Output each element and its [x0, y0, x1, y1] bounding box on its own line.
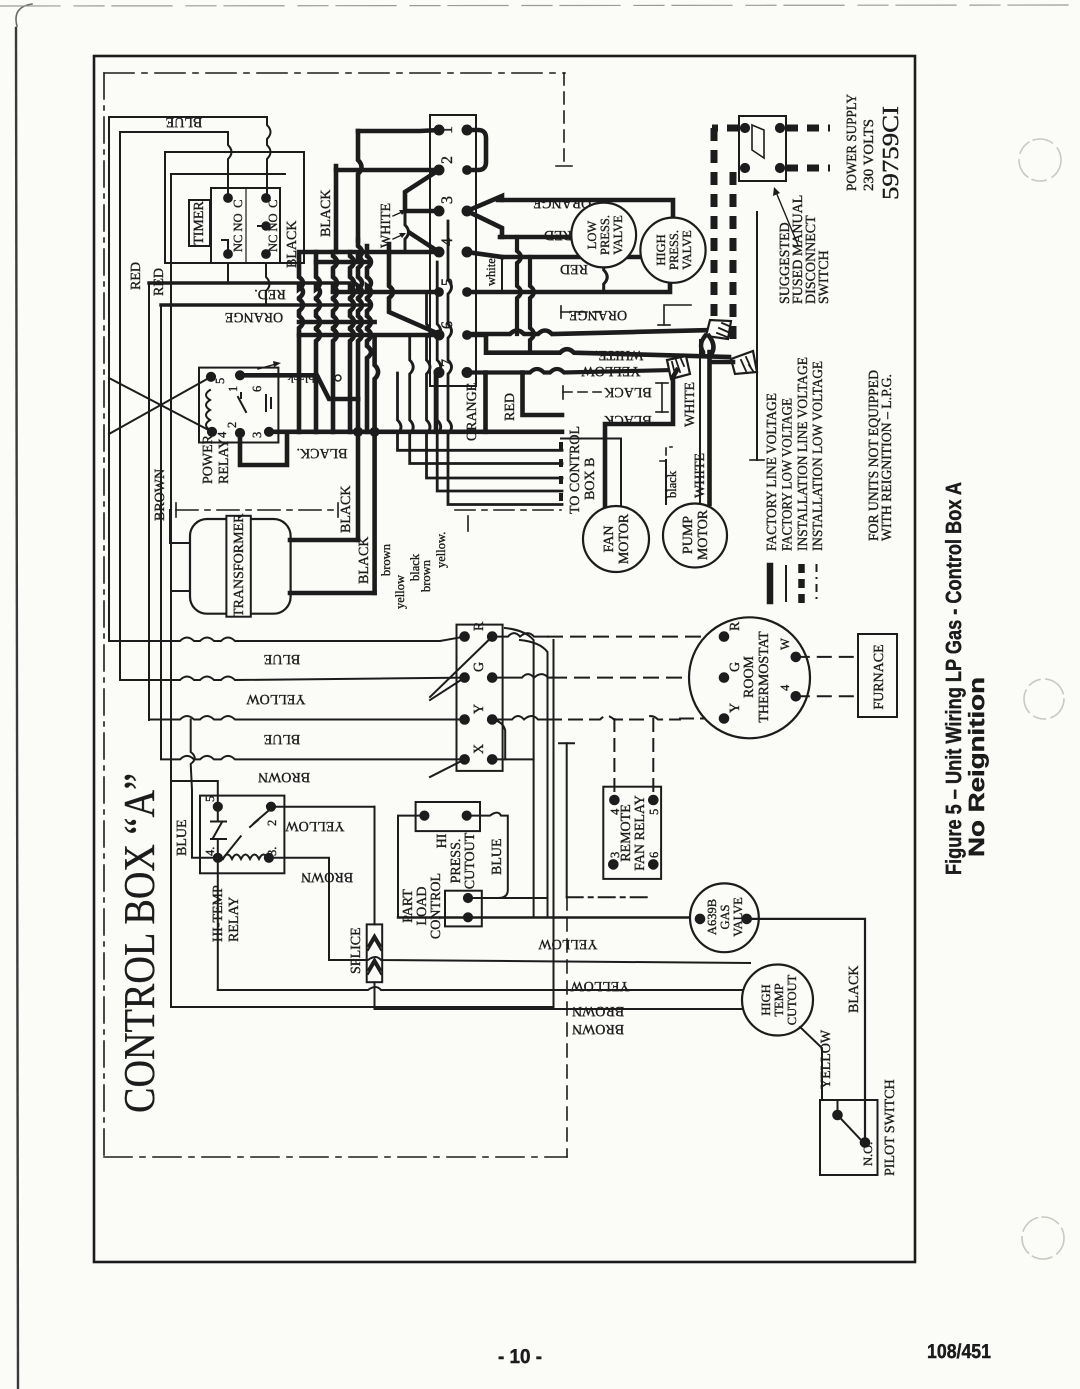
- svg-text:PRESS.: PRESS.: [598, 215, 612, 255]
- wire YELLOW to G row y=680: [120, 677, 465, 681]
- wire G dashed to thermostat: [492, 674, 724, 678]
- svg-text:THERMOSTAT: THERMOSTAT: [757, 631, 772, 723]
- power relay pin 6: [250, 386, 264, 392]
- wire RED y=237 to low valve: [500, 235, 572, 240]
- power supply dashed left: [712, 125, 739, 132]
- label YELLOW upside cutout: [570, 978, 630, 993]
- wire BROWN to X row y=759.4: [161, 756, 465, 760]
- svg-text:MOTOR: MOTOR: [696, 509, 711, 560]
- svg-text:2: 2: [265, 820, 279, 826]
- wire transformer bottom terminal: [290, 591, 375, 596]
- label BLUE vertical hi press: [490, 838, 505, 875]
- label POWER RELAY: [201, 434, 232, 484]
- label ORANGE vertical: [465, 383, 480, 441]
- fan motor circle: [583, 506, 649, 572]
- timer terminal dots: [224, 194, 271, 259]
- label black small 1: [408, 553, 422, 581]
- label YELLOW upside long: [581, 363, 641, 378]
- legend sample installation line voltage: [798, 564, 805, 603]
- svg-text:R: R: [472, 621, 487, 631]
- left vertical wire x=109: [108, 117, 110, 641]
- label YELLOW upside part load: [538, 936, 598, 951]
- hi-temp relay coil: [223, 855, 268, 860]
- wire thin to pump left: [665, 460, 667, 504]
- transformer left stub bottom: [173, 590, 190, 592]
- svg-text:6: 6: [647, 852, 661, 858]
- wire BLUE to hi-temp 4: [191, 720, 218, 858]
- dash-dot tick line y=510 right: [455, 510, 561, 531]
- wire blue drop to timer C with hops: [267, 117, 271, 198]
- hi-temp relay pin 4: [203, 847, 217, 856]
- white label arrow 2: [393, 233, 406, 239]
- label BLACK upside 2: [604, 412, 651, 427]
- svg-text:RELAY: RELAY: [227, 897, 242, 942]
- wire box-B vertical x=409.7: [410, 335, 562, 464]
- hi-temp relay blade 2: [221, 809, 271, 861]
- wire R dashed to thermostat: [492, 633, 724, 637]
- wire box-B vertical x=448: [448, 221, 562, 505]
- relay diagonal wire up: [109, 377, 211, 434]
- bundle vertical x=299: [299, 256, 303, 432]
- pump motor circle: [663, 504, 727, 568]
- label BLACK tall 2: [319, 190, 334, 237]
- svg-text:Figure 5 – Unit Wiring LP Gas: Figure 5 – Unit Wiring LP Gas - Control …: [941, 482, 966, 875]
- power supply dashed vertical x=733: [730, 172, 737, 346]
- remote fan relay pin 5: [647, 809, 661, 815]
- wire box-B vertical x=397.5: [398, 373, 563, 450]
- t-block jumper diagonal X: [430, 759, 465, 777]
- dash elbow near valves: [561, 306, 601, 318]
- label BLACK vertical pilot: [847, 966, 862, 1013]
- long vertical v1 x=533.6: [505, 628, 534, 918]
- wire junction at cones: [701, 336, 733, 504]
- svg-text:POWER SUPPLY: POWER SUPPLY: [845, 94, 860, 191]
- thermostat letter W: [778, 638, 792, 650]
- svg-text:A639B: A639B: [705, 899, 719, 935]
- wire brown from hi-temp 4: [217, 858, 219, 990]
- label PART LOAD CONTROL: [401, 873, 444, 939]
- thermostat letter R: [728, 621, 743, 631]
- svg-text:BLACK: BLACK: [357, 537, 372, 584]
- wire nut cone 1: [706, 320, 731, 339]
- terminal 7 number: [439, 359, 456, 367]
- wire yellow from hi-temp 2: [271, 806, 375, 808]
- label BLACK vertical mid 2: [357, 537, 372, 584]
- wire X row to vertical: [492, 758, 533, 760]
- svg-text:HIGH: HIGH: [759, 984, 773, 1015]
- high press valve circle: [640, 218, 705, 283]
- svg-text:VALVE: VALVE: [731, 897, 745, 937]
- svg-text:CUTOUT: CUTOUT: [463, 832, 478, 889]
- wire diagonal from terminal 2: [405, 170, 439, 211]
- svg-text:BOX B: BOX B: [583, 458, 598, 500]
- svg-text:BLACK: BLACK: [604, 412, 651, 427]
- power supply dashed bottom right: [786, 165, 830, 172]
- svg-text:BROWN: BROWN: [258, 769, 310, 784]
- svg-text:black: black: [665, 470, 679, 498]
- terminal 4 number: [439, 238, 456, 246]
- hi-temp relay pin 3: [265, 847, 279, 856]
- svg-text:brown: brown: [419, 559, 433, 592]
- long vertical v2 x=547.5: [520, 640, 548, 918]
- hi-temp relay box: [200, 796, 284, 874]
- scan hook top left: [16, 4, 32, 26]
- splice rect: [367, 924, 383, 982]
- transformer label strip: [226, 516, 250, 617]
- svg-text:SWITCH: SWITCH: [817, 250, 832, 304]
- svg-text:2: 2: [225, 422, 239, 428]
- caption Figure 5: [941, 482, 989, 875]
- svg-text:YELLOW: YELLOW: [246, 691, 306, 706]
- high temp cutout circle: [742, 965, 813, 1036]
- low press valve circle: [571, 203, 636, 268]
- thermostat letter 4: [778, 684, 792, 691]
- power relay pin 5: [213, 378, 227, 384]
- label SPLICE: [349, 927, 364, 974]
- svg-text:G: G: [728, 662, 743, 672]
- remote fan relay pin 4: [608, 808, 622, 815]
- svg-text:HIGH: HIGH: [654, 234, 668, 265]
- svg-text:BLACK: BLACK: [285, 221, 300, 268]
- wire brown from hi-temp 3: [269, 858, 329, 960]
- pilot switch blade: [838, 1115, 861, 1139]
- t-block jumper diagonal G: [430, 678, 465, 700]
- label BLACK. upside down: [297, 445, 348, 460]
- t-block dots: [460, 632, 497, 764]
- thermostat terminal block: [457, 625, 503, 771]
- wire vertical to terminal 7 left: [434, 373, 439, 432]
- svg-text:REMOTE: REMOTE: [619, 804, 634, 862]
- thermostat dots: [719, 632, 800, 724]
- control box A outline bottom: [171, 640, 554, 1007]
- svg-text:VALVE: VALVE: [611, 215, 625, 255]
- svg-text:FACTORY LOW VOLTAGE: FACTORY LOW VOLTAGE: [781, 398, 796, 551]
- dashed drop at x=564 from top border: [556, 73, 572, 166]
- wire hi-temp 5 to box edge: [171, 781, 218, 807]
- white label arrow 1: [393, 210, 406, 216]
- label yellow small 3: [434, 532, 448, 568]
- hi press cutout dots: [420, 811, 472, 820]
- wire RED from timer bottom: [227, 263, 229, 283]
- label REMOTE FAN RELAY: [619, 795, 648, 871]
- svg-text:BLACK: BLACK: [604, 384, 651, 399]
- label HI-TEMP RELAY: [211, 885, 242, 942]
- svg-text:brown: brown: [379, 543, 393, 576]
- bundle vertical x=316: [316, 252, 320, 432]
- wire to terminal 6: [299, 333, 439, 338]
- dashed boundary rise x=567 lower: [566, 897, 568, 1157]
- svg-text:ORANGE: ORANGE: [569, 307, 627, 322]
- legend text FACTORY LOW VOLTAGE: [781, 398, 796, 551]
- label brown small 1: [379, 543, 393, 576]
- part load dots: [463, 893, 472, 922]
- svg-text:BLACK: BLACK: [319, 190, 334, 237]
- svg-text:TIMER: TIMER: [192, 201, 207, 245]
- relay top jog wire: [240, 375, 358, 399]
- timer outer box: [165, 152, 304, 263]
- svg-text:BROWN: BROWN: [153, 469, 168, 521]
- thermostat letter Y: [728, 703, 743, 713]
- wire white small vertical: [501, 257, 503, 292]
- dash-dot tick line y=510 left: [176, 503, 338, 517]
- wire thin white to pump: [699, 340, 701, 504]
- svg-text:230 VOLTS: 230 VOLTS: [862, 119, 877, 191]
- power supply dashed top right: [786, 125, 830, 132]
- wire 4 dashed to furnace: [796, 695, 858, 697]
- punch hole guide top: [1019, 139, 1061, 181]
- svg-text:3: 3: [250, 432, 264, 438]
- label ORANGE upside down: [225, 309, 283, 324]
- gas valve circle: [690, 883, 759, 952]
- terminal 3 number: [439, 196, 456, 204]
- legend sample factory low voltage: [785, 566, 787, 601]
- label TIMER: [192, 201, 207, 245]
- label YELLOW vertical pilot: [819, 1029, 834, 1089]
- wire BLUE top run 1: [109, 116, 267, 118]
- label brown small 2: [419, 559, 433, 592]
- wire thick black from cone3 down: [605, 370, 677, 506]
- part load control box: [445, 891, 482, 927]
- svg-text:BLACK: BLACK: [847, 966, 862, 1013]
- t-block letter G: [472, 662, 487, 672]
- power supply dashed vertical x=714: [711, 128, 718, 316]
- thermostat letter G: [728, 662, 743, 672]
- pilot switch box: [820, 1100, 878, 1175]
- wire BLUE to R row y=641: [109, 637, 465, 641]
- svg-text:FAN: FAN: [602, 526, 617, 553]
- svg-text:BLUE: BLUE: [166, 114, 203, 129]
- label FAN MOTOR: [602, 513, 632, 564]
- wire hi press right blue: [467, 813, 508, 898]
- wire Y jog stub: [492, 720, 505, 760]
- remote fan relay box: [603, 787, 661, 879]
- label N.O.: [861, 1142, 875, 1166]
- black arrow pointer: [258, 361, 281, 369]
- wire W dashed to furnace: [796, 656, 858, 658]
- wire vertical x=358 upper: [358, 131, 362, 240]
- diagonal from terminal 3 up: [467, 196, 502, 211]
- label BROWN upside hi-temp: [301, 869, 353, 884]
- wire BROWN to high temp cutout: [218, 987, 743, 990]
- furnace box: [858, 634, 897, 717]
- wire part load top to v2: [468, 897, 548, 899]
- label CONTROL BOX "A": [115, 773, 164, 1113]
- wire hi press left: [398, 816, 424, 918]
- svg-text:WHITE: WHITE: [693, 453, 708, 498]
- bundle vertical x=367: [367, 246, 371, 432]
- power relay contact blade 1: [238, 393, 246, 412]
- left vertical wire x=120: [119, 132, 121, 680]
- hi-temp relay pin 5: [203, 796, 217, 802]
- legend sample factory line voltage: [767, 566, 774, 601]
- wire ORANGE loop bottom y=291.5: [467, 284, 670, 292]
- label BLUE vertical hi-temp: [175, 819, 190, 856]
- dash-dot boundary y=897: [567, 896, 651, 898]
- punch hole guide middle: [1024, 679, 1064, 719]
- svg-text:3.: 3.: [265, 847, 279, 856]
- svg-text:3: 3: [439, 196, 456, 204]
- svg-text:RED: RED: [129, 262, 144, 290]
- svg-text:BROWN: BROWN: [572, 1021, 624, 1036]
- label BROWN upside cutout 2: [572, 1021, 624, 1036]
- svg-text:- 10 -: - 10 -: [498, 1346, 542, 1368]
- label ROOM THERMOSTAT: [742, 631, 772, 723]
- label BROWN vertical left: [153, 469, 168, 521]
- jumper terminal1 to terminal2: [467, 130, 486, 170]
- label ORANGE upside bottom: [569, 307, 627, 322]
- terminal strip box: [430, 115, 476, 386]
- svg-text:WHITE: WHITE: [379, 203, 394, 248]
- svg-text:ORANGE: ORANGE: [225, 309, 283, 324]
- svg-text:INSTALLATION LINE VOLTAGE: INSTALLATION LINE VOLTAGE: [796, 357, 811, 551]
- relay diagonal wire down: [109, 378, 212, 432]
- svg-text:WHITE: WHITE: [683, 382, 698, 427]
- wire orange from timer bottom: [266, 263, 270, 305]
- label PILOT SWITCH: [883, 1079, 898, 1176]
- remote fan relay pin 6: [647, 852, 661, 858]
- wire nut cone 3: [667, 356, 690, 379]
- wire nut cone 2: [731, 351, 757, 374]
- wire ORANGE loop top y=200: [498, 200, 673, 218]
- bundle vertical x=350: [350, 252, 354, 432]
- label white vertical small: [484, 258, 498, 286]
- wire blue top run 2: [120, 131, 228, 133]
- t-block letter R: [472, 621, 487, 631]
- wire to terminal 2: [336, 168, 439, 173]
- disconnect switch glyph: [752, 125, 764, 158]
- svg-text:FURNACE: FURNACE: [872, 644, 887, 709]
- svg-text:W: W: [778, 638, 792, 650]
- arrow to disconnect switch: [773, 187, 798, 245]
- wire box-B vertical x=426.5: [427, 292, 563, 478]
- dash elbow near pump: [660, 447, 672, 461]
- gas valve dots: [695, 914, 751, 924]
- outer border frame: [94, 56, 915, 1262]
- svg-text:5: 5: [203, 796, 217, 802]
- diagonal from terminal 4: [467, 252, 502, 257]
- label BLUE upside Y: [264, 731, 301, 746]
- svg-text:1: 1: [226, 386, 240, 392]
- power supply disconnect box: [739, 116, 786, 181]
- terminal 2 number: [439, 156, 456, 164]
- label BLUE upside R: [264, 651, 301, 666]
- label RED vertical lower: [503, 393, 518, 421]
- wire RED y=257 to high valve: [502, 255, 641, 260]
- svg-text:N.O.: N.O.: [861, 1142, 875, 1166]
- svg-text:BLUE: BLUE: [175, 819, 190, 856]
- timer contacts text left column: [231, 199, 245, 252]
- label TRANSFORMER: [232, 513, 247, 617]
- wire WHITE long y=334: [467, 330, 714, 334]
- wire BLACK vertical x=358 to transformer: [356, 399, 361, 540]
- wire box-B vertical x=437.2: [437, 262, 562, 491]
- legend text FACTORY LINE VOLTAGE: [765, 393, 780, 551]
- label YELLOW upside hi-temp: [285, 818, 345, 833]
- svg-text:FAN RELAY: FAN RELAY: [633, 795, 648, 871]
- dash-dot inner border bottom: [104, 1156, 567, 1158]
- wire thin to fan right: [561, 439, 621, 508]
- wire yellow cutout to pilot: [800, 1027, 838, 1115]
- diagonal from terminal 3 down: [467, 211, 502, 237]
- label WHITE vertical: [379, 203, 394, 248]
- open splice circle: [335, 375, 341, 381]
- svg-text:MOTOR: MOTOR: [617, 513, 632, 564]
- svg-text:BLACK.: BLACK.: [297, 445, 348, 460]
- splice arrows: [368, 935, 381, 974]
- svg-text:YELLOW: YELLOW: [819, 1029, 834, 1089]
- label HIGH TEMP CUTOUT: [759, 974, 799, 1025]
- svg-text:LOW: LOW: [585, 221, 599, 250]
- timer internal stub: [222, 226, 266, 254]
- label RED upside 2: [560, 261, 588, 276]
- pilot switch dots: [833, 1110, 870, 1147]
- control box A outline left: [171, 174, 285, 1007]
- svg-text:FACTORY LINE VOLTAGE: FACTORY LINE VOLTAGE: [765, 393, 780, 551]
- label ORANGE upside top: [533, 195, 591, 210]
- wire terminal7 long y=373: [467, 369, 674, 373]
- svg-text:BLUE: BLUE: [264, 651, 301, 666]
- bracket between BLACK labels: [656, 383, 668, 412]
- wire through splice: [375, 807, 743, 1009]
- terminal 1 number: [439, 126, 456, 134]
- label RED vertical 2: [152, 268, 167, 296]
- wire jumper right x=517: [517, 237, 521, 334]
- label FURNACE: [872, 644, 887, 709]
- svg-text:TO CONTROL: TO CONTROL: [568, 426, 583, 514]
- hi-temp relay dots: [213, 802, 275, 862]
- transformer body: [190, 519, 291, 614]
- note FOR UNITS NOT EQUIPPED: [867, 370, 895, 541]
- timer contacts text right column: [266, 199, 280, 252]
- hi-temp relay blade 1: [211, 807, 226, 858]
- bundle vertical x=333: [333, 252, 337, 432]
- wire to terminal 5: [333, 290, 439, 295]
- svg-text:BLUE: BLUE: [490, 838, 505, 875]
- label BLACK upside 1: [604, 384, 651, 399]
- t-block jumper diagonal R: [430, 637, 492, 697]
- power relay pin 1: [226, 386, 240, 392]
- svg-text:YELLOW: YELLOW: [538, 936, 598, 951]
- svg-text:BLUE: BLUE: [264, 731, 301, 746]
- svg-text:CUTOUT: CUTOUT: [785, 974, 799, 1025]
- t-block letter X: [472, 744, 487, 754]
- power relay box: [199, 368, 278, 443]
- svg-text:PRESS.: PRESS.: [449, 839, 464, 884]
- label RED. upside down: [254, 286, 286, 301]
- legend sample installation low voltage: [816, 564, 818, 603]
- power relay coil: [206, 390, 210, 430]
- svg-text:BLACK: BLACK: [339, 486, 354, 533]
- power relay contact blade 2: [266, 395, 271, 411]
- terminal 5 number: [439, 278, 456, 286]
- page number: [498, 1346, 542, 1368]
- doc number: [927, 1341, 991, 1363]
- legend text INSTALLATION LINE VOLTAGE: [796, 357, 811, 551]
- label YELLOW upside G: [246, 691, 306, 706]
- svg-text:2: 2: [439, 156, 456, 164]
- hi press cutout box: [416, 802, 480, 831]
- label black small upside: [287, 371, 315, 385]
- svg-text:BROWN: BROWN: [301, 869, 353, 884]
- svg-text:RED.: RED.: [254, 286, 286, 301]
- svg-text:PRESS.: PRESS.: [667, 230, 681, 270]
- timer label box: [189, 200, 210, 246]
- svg-text:RED: RED: [503, 393, 518, 421]
- remote fan relay pin 3: [608, 852, 622, 858]
- label 59759CI stamp: [878, 106, 903, 200]
- label SUGGESTED FUSED MANUAL DISCONNECT SWITCH: [778, 195, 832, 304]
- wire diagonal terminal 4: [410, 233, 439, 252]
